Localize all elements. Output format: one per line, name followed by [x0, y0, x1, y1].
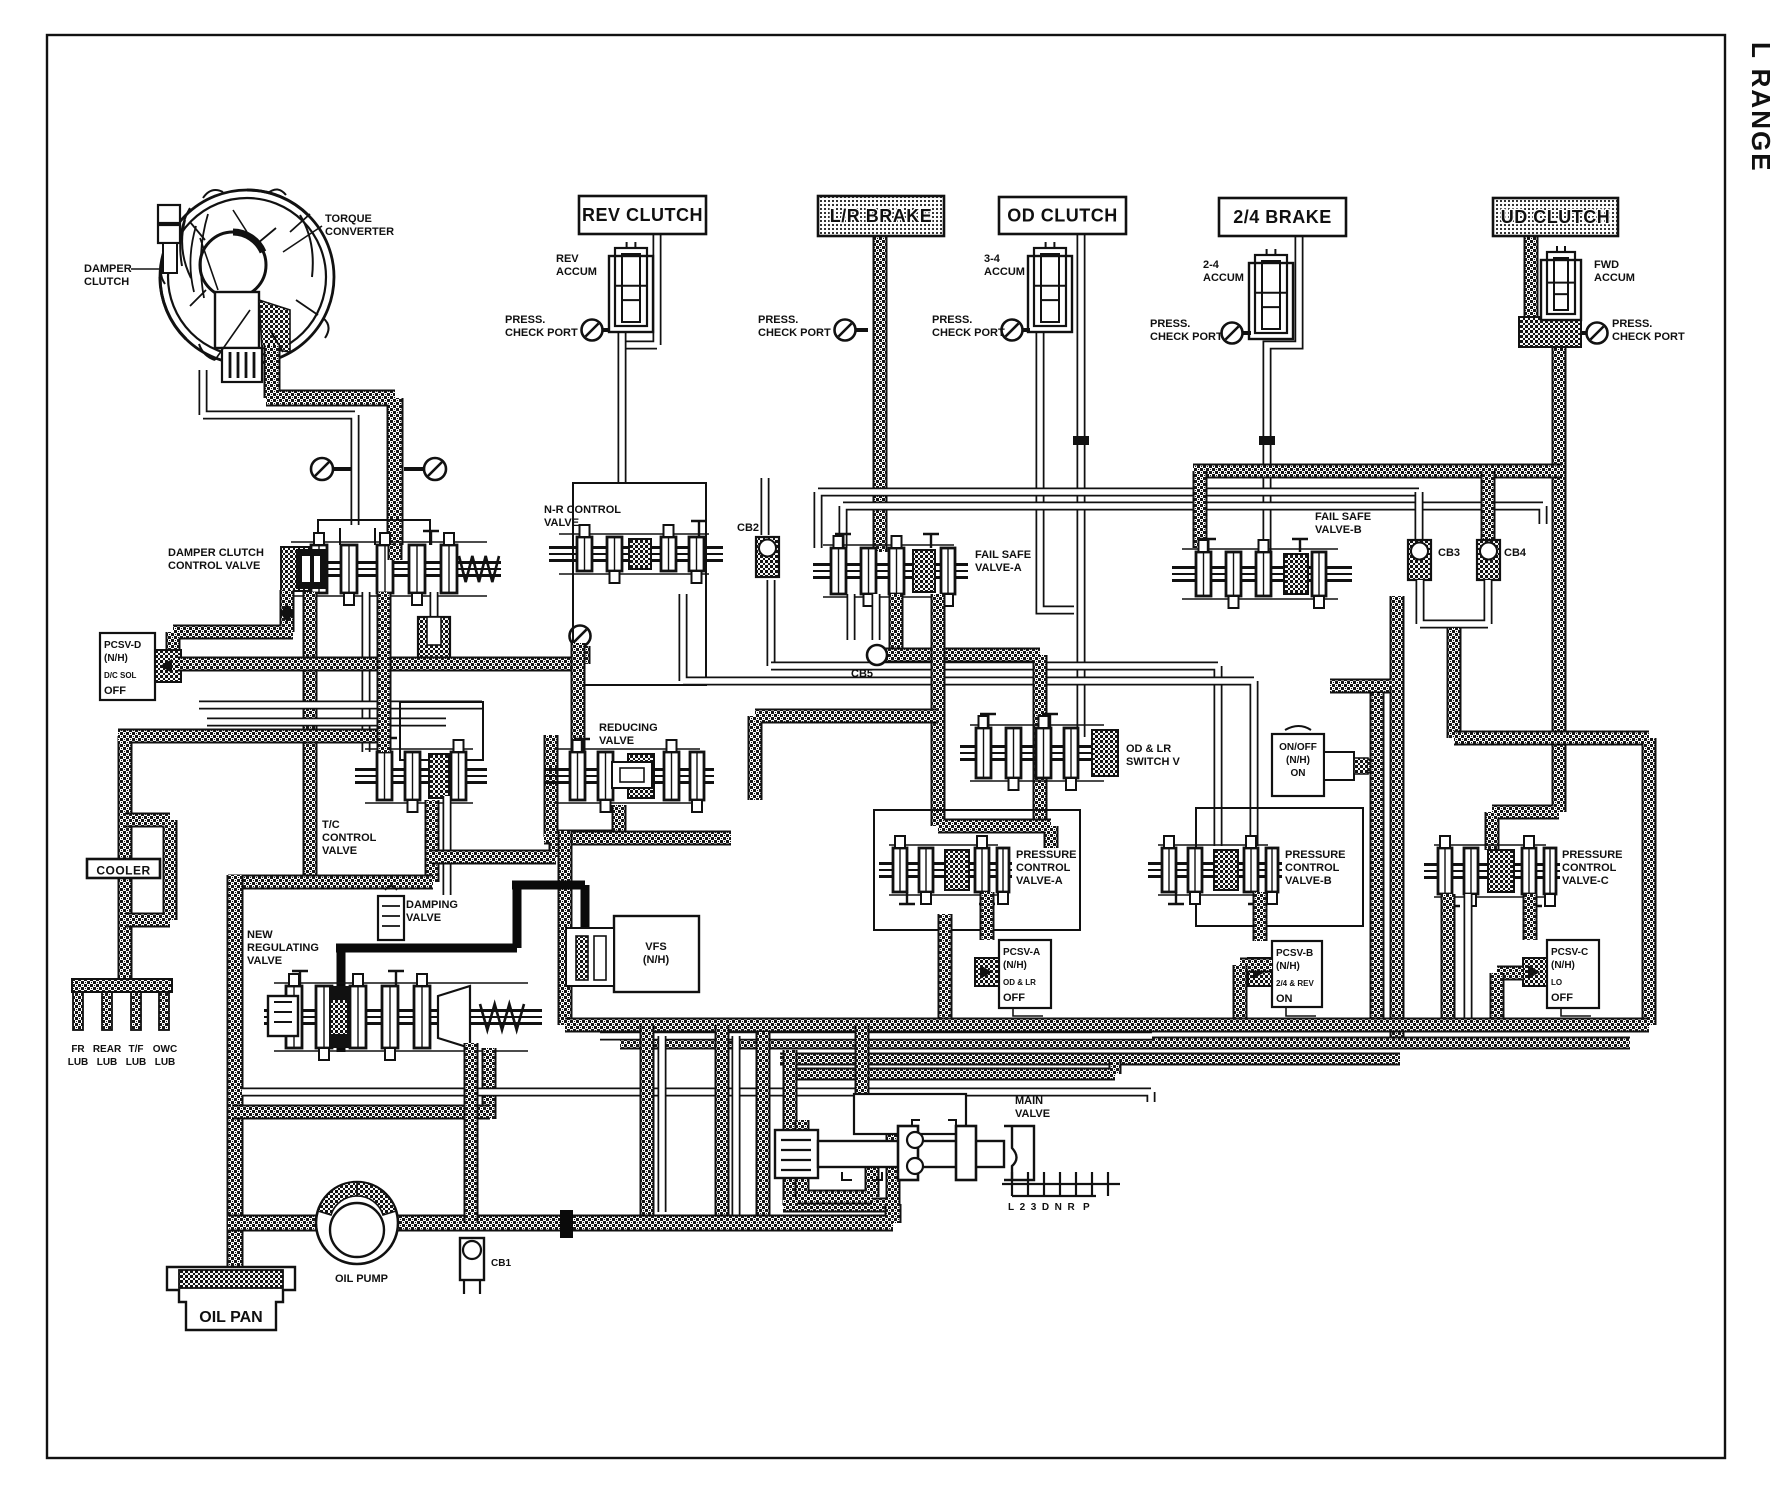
label vfs: [643, 941, 670, 966]
pipe bathtub inner: [797, 1120, 872, 1197]
pipe pcv-a drain: [938, 914, 953, 1025]
pipe fsb feed: [1193, 471, 1208, 548]
regulating valve left bracket: [268, 996, 298, 1036]
pipe onoff link: [1368, 759, 1383, 774]
pipe tc valve down b: [425, 800, 440, 882]
check ball node B: [404, 458, 446, 480]
oil pump: [316, 1182, 398, 1264]
pipe vfs left wall: [558, 831, 573, 1025]
label t/c control valve: [322, 819, 377, 857]
fwd accum base block: [1519, 317, 1581, 347]
pipe bottom left line: [232, 1105, 490, 1120]
accumulator fwd accum: [1541, 246, 1581, 320]
label cb1: [491, 1258, 511, 1269]
black line regulator-vfs: [336, 885, 585, 1052]
svg-text:N-R CONTROL: N-R CONTROL: [544, 504, 621, 516]
svg-text:PRESSURE: PRESSURE: [1562, 849, 1623, 861]
svg-text:CB4: CB4: [1504, 547, 1527, 559]
pipe reducing left: [544, 735, 619, 837]
svg-text:VALVE-A: VALVE-A: [975, 562, 1022, 574]
svg-text:FWD: FWD: [1594, 259, 1619, 271]
solenoid VFS: [566, 916, 699, 992]
pressure control valve-A: [879, 836, 1012, 904]
svg-text:VALVE-C: VALVE-C: [1562, 875, 1609, 887]
wire dccv down b: [362, 592, 371, 752]
orifice block: [418, 617, 450, 659]
manual shift comb: [1002, 1172, 1120, 1196]
box rev clutch: [579, 196, 706, 234]
pipe fsb down: [1390, 686, 1405, 1043]
svg-text:CONTROL: CONTROL: [1016, 862, 1071, 874]
pipe bathtub: [783, 1050, 893, 1205]
svg-text:PCSV-C: PCSV-C: [1551, 947, 1588, 958]
svg-text:VALVE: VALVE: [1015, 1108, 1050, 1120]
label oil pump: [335, 1273, 388, 1285]
pipe pcsv-c feed v: [1490, 973, 1505, 1025]
label pcsv-c: [1551, 947, 1588, 971]
wire fsa stub b: [872, 594, 881, 640]
wire pcsv-b tail: [1286, 1007, 1316, 1016]
svg-text:OFF: OFF: [104, 685, 126, 697]
svg-text:L/R BRAKE: L/R BRAKE: [830, 206, 933, 226]
main valve spool: [775, 1094, 1034, 1180]
press check port od: [1002, 320, 1031, 341]
svg-text:FAIL SAFE: FAIL SAFE: [975, 549, 1031, 561]
accumulator rev accum: [609, 242, 653, 332]
wire collector 5: [600, 1032, 1152, 1041]
oil pan: [167, 1267, 295, 1330]
svg-text:COOLER: COOLER: [96, 864, 150, 878]
svg-text:CHECK PORT: CHECK PORT: [505, 327, 578, 339]
svg-text:DAMPER CLUTCH: DAMPER CLUTCH: [168, 547, 264, 559]
leader damper clutch: [131, 268, 163, 270]
pipe onoff down: [1370, 693, 1385, 1020]
svg-text:CHECK PORT: CHECK PORT: [1612, 331, 1685, 343]
wire left return channels: [199, 701, 482, 710]
label owc lub: [153, 1044, 177, 1068]
wire pcsv-a tail: [1013, 1008, 1043, 1016]
svg-text:NEW: NEW: [247, 929, 273, 941]
solenoid PCSV-D: [100, 633, 181, 700]
pipe 2/4 horizontal: [1193, 464, 1562, 479]
wire 2/4 brake stem: [1267, 236, 1299, 552]
svg-text:2/4 & REV: 2/4 & REV: [1276, 979, 1314, 988]
label press check port rev: [505, 314, 578, 339]
check ball CB2: [756, 537, 779, 577]
svg-text:(N/H): (N/H): [1551, 960, 1575, 971]
svg-text:2/4 BRAKE: 2/4 BRAKE: [1233, 207, 1332, 227]
press check port ud: [1581, 323, 1608, 344]
pipe pump line: [228, 1204, 893, 1223]
wire channel top a: [818, 492, 1419, 548]
solenoid PCSV-C: [1523, 940, 1599, 1008]
label pressure control valve-b: [1285, 849, 1346, 887]
svg-text:MAIN: MAIN: [1015, 1095, 1043, 1107]
wire od clutch stem: [1077, 234, 1086, 737]
flow marker: [280, 604, 294, 622]
fail safe valve-A: [813, 534, 968, 606]
pipe mid left horizontal: [228, 875, 433, 890]
svg-text:VALVE-A: VALVE-A: [1016, 875, 1063, 887]
box od clutch: [999, 197, 1126, 234]
svg-text:D/C SOL: D/C SOL: [104, 671, 137, 680]
box cooler: [87, 859, 160, 878]
wire rev accum down: [618, 331, 627, 482]
svg-text:(N/H): (N/H): [104, 653, 128, 664]
label pcsv-d: [104, 640, 141, 664]
press check port l/r: [835, 320, 869, 341]
svg-text:2-4: 2-4: [1203, 259, 1220, 271]
label damper clutch: [84, 263, 132, 288]
svg-text:LO: LO: [1551, 978, 1562, 987]
fail safe valve-B: [1172, 539, 1352, 608]
svg-text:LUB: LUB: [68, 1057, 89, 1068]
wire cb34 u: [1420, 580, 1488, 624]
wire left return channel 2: [207, 718, 446, 727]
label new regulating valve: [247, 929, 319, 967]
chamber outline pcv-a: [874, 810, 1080, 930]
label pcsv-b on: [1276, 993, 1293, 1005]
box l/r brake: [818, 196, 944, 236]
svg-text:REV: REV: [556, 253, 579, 265]
pipe cb4 riser: [1481, 471, 1496, 540]
label rear lub: [93, 1044, 122, 1068]
label 2-4 accum: [1203, 259, 1244, 284]
svg-text:OIL PAN: OIL PAN: [199, 1309, 262, 1326]
svg-text:3-4: 3-4: [984, 253, 1001, 265]
damper clutch control valve upper bracket: [318, 520, 430, 545]
label cb2: [737, 522, 759, 534]
svg-text:ON: ON: [1276, 993, 1293, 1005]
svg-text:CLUTCH: CLUTCH: [84, 276, 129, 288]
svg-text:REGULATING: REGULATING: [247, 942, 319, 954]
svg-text:OWC: OWC: [153, 1044, 177, 1055]
wire pcsv-c tail: [1561, 1008, 1591, 1016]
wire channel top b: [843, 506, 1543, 548]
regulating valve cone: [438, 986, 470, 1048]
svg-text:REAR: REAR: [93, 1044, 122, 1055]
svg-text:T/C: T/C: [322, 819, 340, 831]
pipe cb34 drop: [1447, 628, 1462, 738]
label press check port 2/4: [1150, 318, 1223, 343]
svg-text:CHECK PORT: CHECK PORT: [758, 327, 831, 339]
pipe regulator down b: [482, 1048, 497, 1119]
pipe tc valve down: [377, 592, 392, 752]
pipe vfs top: [558, 831, 731, 846]
pipe dccv left drop: [173, 590, 293, 660]
svg-text:ACCUM: ACCUM: [1594, 272, 1635, 284]
svg-text:ON/OFF: ON/OFF: [1279, 742, 1317, 753]
svg-text:OD CLUTCH: OD CLUTCH: [1007, 206, 1118, 226]
pipe main line pcsv-d: [178, 657, 577, 672]
pipe cb5 line: [877, 655, 1040, 820]
dccv left cap: [296, 549, 326, 589]
svg-text:(N/H): (N/H): [1276, 961, 1300, 972]
svg-text:DAMPER: DAMPER: [84, 263, 132, 275]
new regulating valve: [264, 971, 542, 1060]
pipe pcsv-b feed: [1240, 958, 1272, 973]
svg-text:VALVE: VALVE: [544, 517, 579, 529]
pipe collector 3: [780, 1053, 1400, 1066]
pipe vfs drop: [756, 1032, 771, 1215]
label 3-4 accum: [984, 253, 1025, 278]
check ball CB4: [1477, 540, 1500, 580]
pipe gauge riser: [576, 646, 591, 664]
pipe fsa down: [938, 594, 1051, 848]
svg-text:(N/H): (N/H): [1003, 960, 1027, 971]
wire t/c return: [203, 370, 355, 525]
pipe pcsv-b feed v: [1233, 965, 1248, 1025]
label pressure control valve-a: [1016, 849, 1077, 887]
svg-text:L RANGE: L RANGE: [1746, 42, 1776, 173]
svg-text:FAIL SAFE: FAIL SAFE: [1315, 511, 1371, 523]
press check port 2/4: [1222, 323, 1252, 344]
svg-text:VALVE: VALVE: [247, 955, 282, 967]
pipe bath feed: [715, 1025, 730, 1229]
svg-text:DAMPING: DAMPING: [406, 899, 458, 911]
wire regulator down: [469, 1048, 478, 1112]
wire long channel: [242, 1092, 1151, 1102]
label t/f lub: [126, 1044, 147, 1068]
damper clutch control valve: [281, 531, 501, 605]
pipe l/r brake stem: [873, 236, 888, 552]
svg-text:OIL PUMP: OIL PUMP: [335, 1273, 388, 1285]
pressure control valve-B: [1148, 836, 1282, 904]
lube fork: [72, 979, 172, 1030]
label pcsv-b s: [1276, 979, 1314, 988]
wire channel mid c: [683, 594, 1254, 846]
label pcsv-c off: [1551, 992, 1573, 1004]
accumulator 2-4 accum: [1249, 249, 1293, 339]
pipe reducing feed: [571, 643, 586, 755]
svg-text:ACCUM: ACCUM: [556, 266, 597, 278]
damping valve: [378, 886, 404, 940]
svg-text:CHECK PORT: CHECK PORT: [932, 327, 1005, 339]
label fail safe valve-a: [975, 549, 1031, 574]
label pcsv-a: [1003, 947, 1040, 971]
solenoid PCSV-A: [975, 940, 1051, 1008]
label cb3: [1438, 547, 1460, 559]
svg-text:PRESS.: PRESS.: [1612, 318, 1652, 330]
orifice tick od line: [1073, 436, 1089, 445]
chamber outline pcv-b: [1196, 808, 1363, 926]
svg-text:FR: FR: [71, 1044, 85, 1055]
svg-text:PRESS.: PRESS.: [758, 314, 798, 326]
label damping valve: [406, 899, 458, 924]
svg-text:LUB: LUB: [155, 1057, 176, 1068]
svg-text:(N/H): (N/H): [1286, 755, 1310, 766]
wire valve-c down b: [1464, 894, 1473, 1020]
svg-text:PCSV-D: PCSV-D: [104, 640, 141, 651]
svg-text:PRESS.: PRESS.: [932, 314, 972, 326]
label od lr switch: [1126, 743, 1180, 768]
svg-text:OD & LR: OD & LR: [1126, 743, 1171, 755]
chamber outline N-R: [573, 483, 706, 685]
pipe pcsv-c stub: [1523, 894, 1538, 940]
label main valve: [1015, 1095, 1050, 1120]
svg-text:OD & LR: OD & LR: [1003, 978, 1036, 987]
regulating valve black marks: [330, 986, 350, 1000]
pipe left spine: [227, 875, 244, 1271]
wire channel mid b: [771, 666, 1218, 846]
wire tc valve down c: [443, 796, 452, 895]
svg-text:CONTROL: CONTROL: [1562, 862, 1617, 874]
orifice tick 2/4 line: [1259, 436, 1275, 445]
wire 3-4 accum down: [1040, 333, 1074, 610]
label rev accum: [556, 253, 597, 278]
pipe pcsv-c feed: [1497, 966, 1523, 981]
pipe ud clutch stem: [1524, 236, 1539, 325]
label cb4: [1504, 547, 1527, 559]
svg-text:LUB: LUB: [97, 1057, 118, 1068]
pipe right loop: [1399, 738, 1649, 1025]
t/c valve upper chamber: [400, 702, 483, 760]
label on/off: [1279, 742, 1317, 779]
svg-text:LUB: LUB: [126, 1057, 147, 1068]
pipe cooler bypass: [125, 820, 170, 920]
svg-text:ACCUM: ACCUM: [1203, 272, 1244, 284]
pipe collector 1: [565, 1018, 1649, 1033]
svg-text:CONTROL: CONTROL: [1285, 862, 1340, 874]
svg-text:REDUCING: REDUCING: [599, 722, 658, 734]
check ball CB3: [1408, 540, 1431, 580]
svg-text:VALVE: VALVE: [599, 735, 634, 747]
label pcsv-d state: [104, 671, 137, 680]
svg-text:PCSV-B: PCSV-B: [1276, 948, 1313, 959]
svg-text:VALVE: VALVE: [406, 912, 441, 924]
label pcsv-d off: [104, 685, 126, 697]
od-lr switch valve: [960, 714, 1118, 790]
t/c control valve: [355, 738, 487, 812]
reducing valve inner detail: [612, 762, 652, 788]
pipe pcsv-a stub: [980, 892, 995, 940]
svg-text:CONTROL VALVE: CONTROL VALVE: [168, 560, 260, 572]
svg-text:CB3: CB3: [1438, 547, 1460, 559]
svg-text:PRESS.: PRESS.: [1150, 318, 1190, 330]
svg-text:L 2 3 D N R P: L 2 3 D N R P: [1008, 1202, 1090, 1213]
reducing valve: [544, 739, 714, 812]
label damper clutch control valve: [168, 547, 264, 572]
box ud clutch: [1493, 198, 1618, 236]
label pcsv-b: [1276, 948, 1313, 972]
solenoid ON/OFF: [1272, 726, 1368, 796]
pipe fsb out: [1330, 596, 1397, 686]
svg-text:VALVE-B: VALVE-B: [1285, 875, 1332, 887]
svg-text:TORQUE: TORQUE: [325, 213, 372, 225]
svg-text:PRESSURE: PRESSURE: [1285, 849, 1346, 861]
pipe center drop a: [640, 1025, 655, 1216]
pipe cb1 riser: [464, 1043, 479, 1223]
svg-text:ACCUM: ACCUM: [984, 266, 1025, 278]
svg-text:VFS: VFS: [645, 941, 666, 953]
label n-r control valve: [544, 504, 621, 529]
svg-text:(N/H): (N/H): [643, 954, 670, 966]
pipe dccv down a: [303, 592, 318, 882]
label pcsv-c s: [1551, 978, 1562, 987]
svg-text:T/F: T/F: [129, 1044, 144, 1055]
label shift positions: [1008, 1202, 1090, 1213]
pipe valve-c down a: [1441, 894, 1456, 1020]
pipe pcsv-b stub: [1253, 892, 1268, 941]
check ball CB5: [867, 645, 887, 665]
svg-text:UD CLUTCH: UD CLUTCH: [1501, 207, 1611, 227]
svg-text:CHECK PORT: CHECK PORT: [1150, 331, 1223, 343]
svg-text:CONVERTER: CONVERTER: [325, 226, 394, 238]
press check port rev: [582, 320, 611, 341]
pipe cooler line: [118, 736, 384, 979]
n-r control valve: [549, 521, 723, 583]
press check gauge node C: [570, 626, 591, 659]
orifice on pump line: [560, 1210, 573, 1238]
wire center drop b: [658, 1036, 667, 1212]
pipe l/r below valve: [889, 594, 904, 648]
pipe collector 4: [790, 1062, 1115, 1074]
label cb5: [851, 668, 873, 680]
label fwd accum: [1594, 259, 1635, 284]
wire cb3 riser: [1415, 492, 1424, 540]
label torque converter: [325, 213, 394, 238]
pipe bore feed: [855, 1025, 870, 1094]
wire rev clutch stem: [622, 234, 657, 482]
wire cb2 riser: [761, 478, 770, 535]
pipe dccv down d: [388, 545, 403, 560]
svg-text:CB1: CB1: [491, 1258, 511, 1269]
svg-text:ON: ON: [1291, 768, 1306, 779]
wire fsa stub a: [847, 594, 856, 640]
label fr lub: [68, 1044, 89, 1068]
svg-text:VALVE-B: VALVE-B: [1315, 524, 1362, 536]
wire dccv down c: [430, 592, 439, 620]
pipe collector 2: [620, 1037, 1630, 1050]
svg-text:REV CLUTCH: REV CLUTCH: [582, 205, 703, 225]
label pcsv-a off: [1003, 992, 1025, 1004]
check ball CB1: [460, 1238, 484, 1294]
svg-text:PRESS.: PRESS.: [505, 314, 545, 326]
pipe ud main down: [1492, 340, 1559, 850]
pipe reducing out: [755, 716, 938, 800]
svg-text:CB2: CB2: [737, 522, 759, 534]
svg-text:PRESSURE: PRESSURE: [1016, 849, 1077, 861]
svg-text:VALVE: VALVE: [322, 845, 357, 857]
svg-text:PCSV-A: PCSV-A: [1003, 947, 1040, 958]
svg-text:OFF: OFF: [1551, 992, 1573, 1004]
svg-text:CB5: CB5: [851, 668, 873, 680]
label oil pan: [199, 1309, 262, 1326]
wire bath feed b: [732, 1036, 741, 1215]
pressure control valve-C: [1424, 836, 1560, 906]
svg-text:CONTROL: CONTROL: [322, 832, 377, 844]
label pressure control valve-c: [1562, 849, 1623, 887]
pipe lower link a: [432, 842, 556, 857]
box 2/4 brake: [1219, 198, 1346, 236]
label reducing valve: [599, 722, 658, 747]
label press check port od: [932, 314, 1005, 339]
check ball node A: [311, 458, 352, 480]
solenoid PCSV-B: [1248, 941, 1322, 1007]
label pcsv-a s: [1003, 978, 1036, 987]
label fail safe valve-b: [1315, 511, 1371, 536]
label press check port ud: [1612, 318, 1685, 343]
svg-text:OFF: OFF: [1003, 992, 1025, 1004]
torque converter assembly: [158, 189, 334, 382]
pipe t/c outlet: [266, 345, 395, 545]
accumulator 3-4 accum: [1028, 242, 1072, 332]
label press check port l/r: [758, 314, 831, 339]
wire channel mid a: [767, 580, 776, 666]
leader torque converter: [283, 226, 322, 252]
svg-text:SWITCH V: SWITCH V: [1126, 756, 1180, 768]
